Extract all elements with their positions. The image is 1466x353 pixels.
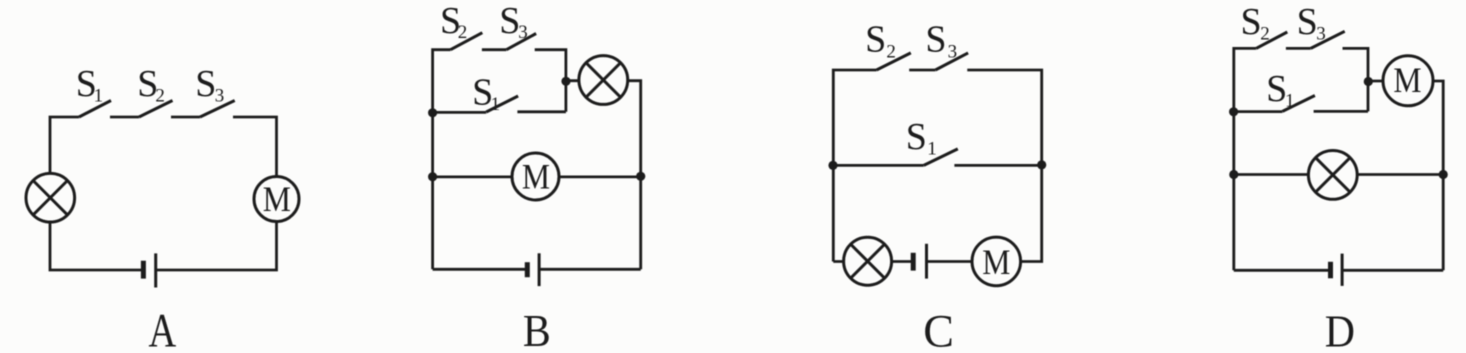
svg-text:B: B	[523, 307, 551, 353]
svg-text:3: 3	[518, 22, 528, 43]
svg-text:2: 2	[1260, 23, 1270, 44]
svg-text:1: 1	[491, 94, 501, 115]
svg-text:1: 1	[94, 85, 104, 106]
svg-text:M: M	[1393, 61, 1421, 100]
svg-text:2: 2	[458, 22, 468, 43]
svg-text:S: S	[1297, 1, 1318, 43]
svg-text:3: 3	[1316, 23, 1326, 44]
svg-text:C: C	[923, 306, 954, 353]
svg-text:1: 1	[1285, 91, 1295, 112]
svg-text:3: 3	[215, 85, 225, 106]
svg-text:S: S	[1241, 1, 1262, 43]
svg-text:1: 1	[927, 139, 937, 160]
svg-text:S: S	[925, 19, 946, 61]
svg-text:D: D	[1325, 307, 1355, 353]
svg-text:3: 3	[948, 42, 958, 63]
svg-text:2: 2	[155, 85, 165, 106]
svg-text:S: S	[865, 19, 886, 61]
svg-text:M: M	[522, 158, 550, 197]
svg-text:2: 2	[886, 42, 896, 63]
svg-text:M: M	[263, 180, 291, 219]
svg-text:A: A	[149, 305, 177, 353]
svg-text:M: M	[982, 243, 1010, 282]
svg-text:S: S	[906, 116, 927, 158]
svg-text:S: S	[499, 0, 520, 42]
svg-text:S: S	[195, 63, 216, 105]
